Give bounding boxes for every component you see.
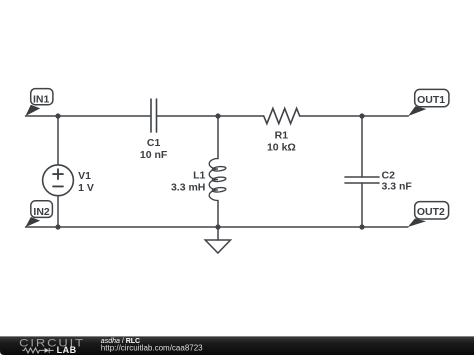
svg-text:10 nF: 10 nF [140, 149, 168, 161]
svg-text:OUT1: OUT1 [417, 94, 445, 106]
svg-text:http://circuitlab.com/caa8723: http://circuitlab.com/caa8723 [101, 343, 203, 352]
node OUT1 flag [408, 89, 449, 116]
junction top-left [55, 113, 60, 118]
junction top-middle [215, 113, 220, 118]
ground [205, 227, 230, 253]
svg-text:3.3 nF: 3.3 nF [382, 180, 413, 192]
capacitor C2 [345, 177, 379, 183]
wire top segment right (R1 to OUT1) [300, 115, 409, 117]
label R1 value [267, 129, 296, 153]
svg-text:3.3 mH: 3.3 mH [171, 182, 205, 194]
junction bottom-right [359, 224, 364, 229]
wire top segment left (IN1 to C1) [26, 115, 151, 117]
footer title text [101, 338, 203, 352]
svg-text:L1: L1 [193, 170, 205, 182]
capacitor C1 [151, 99, 157, 132]
svg-text:OUT2: OUT2 [417, 206, 445, 218]
junction bottom-middle [215, 224, 220, 229]
label C1 value [140, 137, 168, 161]
svg-text:1 V: 1 V [78, 182, 94, 194]
wire right branch lower (C2 to bottom) [361, 183, 363, 227]
wire middle branch upper (node to L1) [217, 116, 219, 159]
svg-text:V1: V1 [78, 170, 91, 182]
wire left branch lower (V1 to bottom) [57, 196, 59, 227]
wire left branch upper (to V1) [57, 116, 59, 165]
svg-text:R1: R1 [275, 129, 289, 141]
voltage source V1 [43, 165, 74, 196]
junction bottom-left [55, 224, 60, 229]
node IN2 flag [26, 201, 53, 227]
svg-text:10 kΩ: 10 kΩ [267, 141, 296, 153]
inductor L1 [209, 159, 226, 201]
node OUT2 flag [408, 202, 449, 227]
svg-text:IN1: IN1 [33, 93, 50, 105]
junction top-right [359, 113, 364, 118]
resistor R1 [264, 108, 300, 123]
node IN1 flag [26, 89, 53, 116]
footer bar [0, 336, 474, 355]
label L1 value [171, 170, 206, 194]
label V1 value [78, 170, 94, 194]
svg-text:IN2: IN2 [33, 206, 50, 218]
wire middle branch lower (L1 to bottom) [217, 201, 219, 228]
svg-text:LAB: LAB [57, 345, 77, 355]
svg-text:C1: C1 [147, 137, 161, 149]
label C2 value [382, 170, 413, 193]
wire top segment middle (C1 to R1) [157, 115, 263, 117]
CircuitLab logo [19, 336, 85, 355]
wire bottom segment [26, 226, 408, 228]
wire right branch upper (node to C2) [361, 116, 363, 177]
